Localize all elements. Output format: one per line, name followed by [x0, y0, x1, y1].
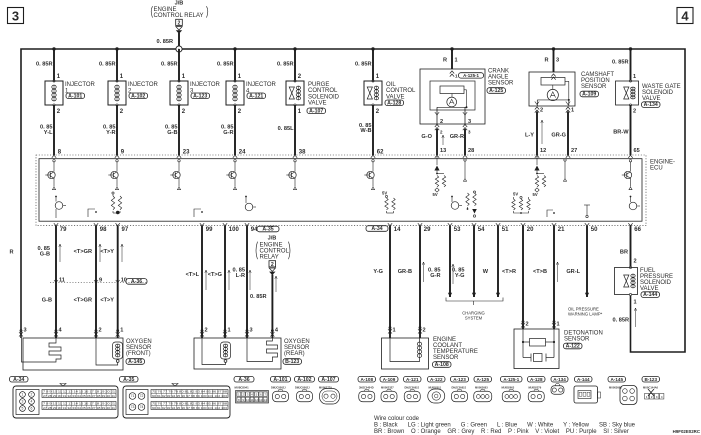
svg-text:A-109: A-109	[383, 377, 396, 382]
svg-text:<T>B: <T>B	[533, 269, 547, 275]
svg-text:0. 85R: 0. 85R	[36, 62, 52, 68]
svg-text:J/B: J/B	[175, 1, 184, 7]
svg-text:1: 1	[228, 328, 231, 334]
svg-text:BR: BR	[620, 250, 628, 256]
svg-text:<T>GR: <T>GR	[74, 298, 92, 304]
svg-text:W: W	[483, 269, 489, 275]
svg-text:A-121: A-121	[406, 377, 419, 382]
svg-text:1: 1	[633, 74, 636, 80]
svg-text:VALVE: VALVE	[308, 101, 326, 107]
svg-text:<T>R: <T>R	[502, 269, 516, 275]
svg-text:MU8C144A6: MU8C144A6	[643, 386, 659, 390]
svg-text:G-R: G-R	[430, 273, 440, 279]
svg-text:CONTROL: CONTROL	[308, 88, 338, 94]
svg-text:23: 23	[183, 150, 190, 156]
svg-text:SENSOR: SENSOR	[488, 81, 514, 87]
svg-text:GR-R: GR-R	[450, 134, 464, 140]
svg-text:1: 1	[557, 322, 560, 328]
svg-text:DMJC0062J: DMJC0062J	[452, 386, 467, 390]
svg-text:3: 3	[468, 119, 471, 125]
svg-text:2: 2	[440, 119, 443, 125]
svg-text:A-101: A-101	[68, 93, 82, 99]
svg-text:A-125: A-125	[476, 377, 489, 382]
svg-text:20: 20	[527, 227, 534, 233]
svg-text:24: 24	[239, 150, 246, 156]
svg-text:1: 1	[120, 328, 123, 334]
svg-text:<T>G: <T>G	[208, 272, 222, 278]
svg-text:90 91 92 93 94 95 96 97 98 99: 90 91 92 93 94 95 96 97 98 99 100 101 10…	[152, 406, 228, 410]
svg-text:A-123: A-123	[453, 377, 466, 382]
svg-text:90 91 92 93 94 95 96 97 98 99: 90 91 92 93 94 95 96 97 98 99 100 101 10…	[152, 394, 228, 398]
svg-text:MU802663: MU802663	[475, 386, 488, 390]
svg-text:WARNING LAMP*: WARNING LAMP*	[568, 312, 603, 317]
svg-text:A-35: A-35	[262, 227, 273, 233]
svg-text:27: 27	[571, 148, 577, 154]
svg-text:A-36: A-36	[238, 377, 249, 383]
svg-text:G-B: G-B	[42, 298, 52, 304]
svg-text:5: 5	[22, 407, 24, 411]
svg-text:0. 85L: 0. 85L	[278, 126, 294, 132]
svg-text:H9F02E02RC: H9F02E02RC	[673, 429, 701, 434]
svg-text:71: 71	[131, 394, 135, 398]
svg-text:A-122: A-122	[566, 344, 580, 350]
svg-text:9: 9	[99, 278, 102, 284]
svg-text:A-36: A-36	[131, 279, 142, 285]
svg-text:<T>L: <T>L	[186, 272, 200, 278]
svg-text:<T>Y: <T>Y	[100, 249, 114, 255]
svg-text:INJECTOR: INJECTOR	[65, 82, 96, 88]
svg-text:A-122: A-122	[430, 377, 443, 382]
svg-text:B : Black LG : Light gree: B : Black LG : Light green G : Green L :…	[374, 423, 636, 429]
svg-text:DMJC0062J: DMJC0062J	[405, 386, 420, 390]
svg-text:27 28 29 30 31 32 33 34 35 36: 27 28 29 30 31 32 33 34 35 36 37 38 39 4…	[43, 406, 116, 410]
svg-text:A-123: A-123	[193, 93, 207, 99]
svg-text:A-145: A-145	[610, 377, 623, 382]
svg-text:5V: 5V	[433, 192, 438, 197]
svg-text:B-123: B-123	[285, 359, 299, 365]
svg-text:1: 1	[634, 300, 637, 306]
svg-text:3MJC0404D: 3MJC0404D	[359, 386, 374, 390]
svg-text:VALVE: VALVE	[640, 286, 658, 292]
svg-text:SENSOR: SENSOR	[564, 337, 590, 343]
svg-text:50: 50	[591, 227, 598, 233]
svg-text:11: 11	[250, 398, 253, 402]
svg-text:DMJC0062J: DMJC0062J	[295, 386, 310, 390]
svg-text:2: 2	[99, 328, 102, 334]
svg-text:28: 28	[468, 148, 474, 154]
svg-text:2: 2	[423, 328, 426, 334]
svg-text:GR-G: GR-G	[551, 133, 566, 139]
svg-text:12: 12	[540, 148, 546, 154]
svg-text:0. 85R: 0. 85R	[355, 62, 371, 68]
svg-text:DMJC0062J: DMJC0062J	[271, 386, 286, 390]
svg-text:0. 85R: 0. 85R	[217, 62, 233, 68]
svg-text:A-108: A-108	[435, 362, 449, 368]
svg-text:INJECTOR: INJECTOR	[246, 82, 277, 88]
svg-text:OIL: OIL	[386, 82, 396, 88]
svg-text:12: 12	[255, 398, 259, 402]
svg-text:(REAR): (REAR)	[284, 351, 305, 357]
svg-text:5V: 5V	[533, 192, 538, 197]
svg-text:G-B: G-B	[40, 251, 50, 257]
svg-text:2: 2	[633, 109, 636, 115]
svg-text:0. 85R: 0. 85R	[277, 62, 293, 68]
svg-text:G-B: G-B	[167, 130, 177, 136]
svg-text:A-34: A-34	[371, 226, 382, 232]
svg-text:MU802279: MU802279	[529, 386, 542, 390]
svg-text:14: 14	[264, 398, 268, 402]
svg-text:A-128: A-128	[387, 100, 401, 106]
svg-text:73: 73	[131, 405, 135, 409]
svg-text:MU802327: MU802327	[381, 386, 394, 390]
svg-text:6: 6	[31, 407, 33, 411]
svg-text:1: 1	[455, 58, 458, 64]
svg-text:3: 3	[24, 328, 27, 334]
svg-text:0. 85R: 0. 85R	[613, 318, 629, 324]
svg-text:3: 3	[22, 400, 24, 404]
svg-text:GR-L: GR-L	[566, 269, 580, 275]
svg-text:L-R: L-R	[236, 273, 245, 279]
svg-text:A-144: A-144	[643, 292, 657, 298]
svg-text:R: R	[10, 250, 14, 256]
svg-text:5V: 5V	[513, 192, 518, 197]
svg-text:97: 97	[122, 227, 129, 233]
svg-text:1: 1	[393, 328, 396, 334]
svg-text:ECU: ECU	[650, 166, 663, 172]
svg-text:A-101: A-101	[273, 377, 287, 383]
svg-text:2: 2	[31, 393, 33, 397]
svg-text:J/B: J/B	[268, 236, 277, 242]
svg-text:A-128: A-128	[530, 377, 543, 382]
svg-text:Y-G: Y-G	[373, 269, 383, 275]
svg-text:B-123: B-123	[644, 377, 657, 382]
svg-text:3: 3	[556, 58, 559, 64]
svg-text:65: 65	[634, 148, 640, 154]
svg-text:0. 85R: 0. 85R	[250, 294, 266, 300]
svg-text:BR : Brown O : Orange GR: BR : Brown O : Orange GR : Grey R : Red …	[374, 429, 629, 435]
svg-text:A-107: A-107	[309, 108, 323, 114]
svg-text:A-125-1: A-125-1	[463, 73, 479, 78]
svg-text:A-134: A-134	[644, 102, 658, 108]
svg-text:2: 2	[178, 21, 181, 27]
svg-text:21: 21	[558, 227, 565, 233]
svg-text:W-B: W-B	[360, 128, 371, 134]
svg-text:14: 14	[394, 227, 401, 233]
svg-text:A-134: A-134	[553, 377, 566, 382]
svg-text:A-34: A-34	[13, 377, 24, 383]
svg-text:13: 13	[259, 398, 263, 402]
svg-text:2: 2	[634, 259, 637, 265]
svg-text:L-Y: L-Y	[525, 133, 534, 139]
svg-text:G-R: G-R	[223, 130, 233, 136]
svg-text:98: 98	[100, 227, 107, 233]
svg-text:2: 2	[526, 322, 529, 328]
svg-text:SENSOR: SENSOR	[581, 84, 607, 90]
svg-text:R: R	[443, 58, 447, 64]
svg-text:SENSOR: SENSOR	[433, 355, 459, 361]
svg-text:4: 4	[31, 400, 33, 404]
svg-text:CONTROL: CONTROL	[386, 88, 416, 94]
svg-text:54: 54	[478, 227, 485, 233]
svg-text:0. 85R: 0. 85R	[99, 62, 115, 68]
svg-text:A-145: A-145	[128, 359, 142, 365]
svg-text:0. 85R: 0. 85R	[157, 39, 173, 45]
svg-text:<T>Y: <T>Y	[100, 298, 114, 304]
svg-text:SOLENOID: SOLENOID	[308, 94, 340, 100]
svg-text:1: 1	[22, 393, 24, 397]
svg-text:27 28 29 30 31 32 33 34 35 36: 27 28 29 30 31 32 33 34 35 36 37 38 39 4…	[43, 394, 116, 398]
svg-text:MU802663: MU802663	[502, 386, 515, 390]
svg-text:G-O: G-O	[421, 134, 432, 140]
svg-text:BR-W: BR-W	[613, 130, 629, 136]
svg-text:2: 2	[205, 328, 208, 334]
svg-text:11: 11	[59, 278, 65, 284]
svg-text:Y-R: Y-R	[106, 130, 115, 136]
svg-text:4: 4	[681, 9, 689, 24]
svg-text:51: 51	[502, 227, 509, 233]
svg-text:A-125: A-125	[489, 88, 503, 94]
svg-text:CONTROL RELAY: CONTROL RELAY	[154, 13, 204, 19]
svg-text:A-35: A-35	[123, 377, 134, 383]
svg-text:(FRONT): (FRONT)	[126, 351, 151, 357]
svg-text:66: 66	[634, 227, 641, 233]
svg-text:SYSTEM: SYSTEM	[465, 316, 483, 321]
svg-text:74: 74	[140, 405, 144, 409]
svg-text:Y-L: Y-L	[44, 130, 53, 136]
svg-text:A-144: A-144	[577, 377, 590, 382]
svg-text:5V: 5V	[382, 191, 387, 196]
svg-text:A-107: A-107	[321, 377, 335, 383]
svg-text:72: 72	[140, 394, 144, 398]
svg-text:2: 2	[540, 108, 543, 114]
svg-text:Y-G: Y-G	[455, 273, 465, 279]
svg-text:1: 1	[571, 108, 574, 114]
svg-text:100: 100	[229, 227, 240, 233]
svg-text:VALVE: VALVE	[642, 96, 660, 102]
svg-text:3: 3	[250, 328, 253, 334]
svg-text:A-109: A-109	[582, 92, 596, 98]
svg-text:3: 3	[12, 9, 19, 24]
svg-text:Wire colour code: Wire colour code	[374, 416, 420, 422]
svg-text:MU8C8041: MU8C8041	[235, 386, 250, 390]
svg-text:GR-B: GR-B	[398, 269, 412, 275]
svg-text:2: 2	[271, 262, 274, 268]
svg-text:0. 85R: 0. 85R	[161, 62, 177, 68]
svg-text:13: 13	[440, 148, 446, 154]
svg-text:53: 53	[454, 227, 461, 233]
svg-text:A-108: A-108	[360, 377, 373, 382]
svg-text:R: R	[544, 58, 548, 64]
svg-text:A-121: A-121	[249, 93, 263, 99]
svg-text:<T>GR: <T>GR	[74, 249, 92, 255]
svg-text:29: 29	[424, 227, 431, 233]
svg-text:RELAY: RELAY	[260, 255, 279, 261]
svg-text:A-102: A-102	[297, 377, 311, 383]
svg-text:99: 99	[206, 227, 213, 233]
svg-text:79: 79	[60, 227, 67, 233]
svg-text:10: 10	[246, 398, 250, 402]
svg-text:A-102: A-102	[131, 93, 145, 99]
svg-text:PURGE: PURGE	[308, 82, 329, 88]
svg-text:0. 85R: 0. 85R	[612, 60, 628, 66]
svg-text:INJECTOR: INJECTOR	[190, 82, 221, 88]
svg-text:INJECTOR: INJECTOR	[128, 82, 159, 88]
svg-text:A-125-1: A-125-1	[503, 377, 519, 382]
